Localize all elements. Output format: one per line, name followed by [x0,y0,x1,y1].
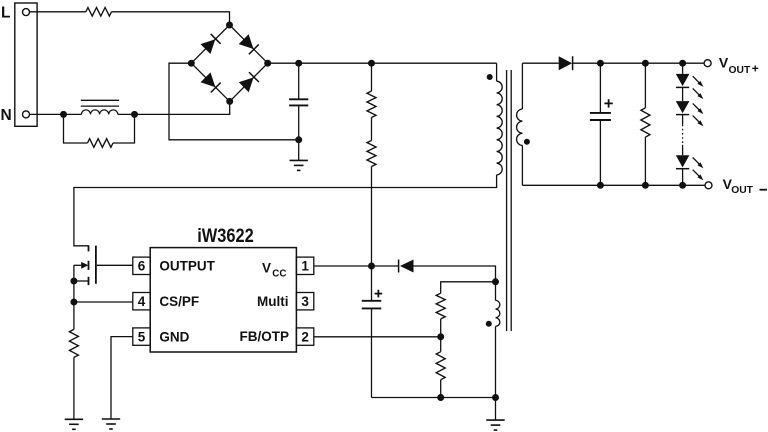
terminal N pin [23,111,30,118]
wire R1 to bridge top [112,12,230,25]
input terminal block J1 [15,3,37,126]
wire parallel branch left [64,114,88,143]
wire bridge edge T-R [230,25,268,63]
wire primary top lead [496,63,498,81]
resistor R2 [88,139,114,148]
wire bridge edge B-R [230,63,268,101]
node C3 top [597,60,604,67]
wire C1 node to R3 node [299,62,372,64]
wire secondary top lead [521,63,523,109]
ground input [290,159,308,161]
ground sense [65,418,83,420]
svg-text:1: 1 [301,259,309,274]
resistor R6 [436,293,445,319]
transformer T1 primary phase dot [487,74,493,80]
wire pin2 to FB node [314,336,441,338]
svg-text:OUT: OUT [729,65,751,76]
diode D3 [201,72,216,87]
node FB [437,333,444,340]
node A [60,111,67,118]
capacitor C2 plus [375,293,383,295]
node R8 top [642,60,649,67]
wire C2 to bottom rail [371,308,373,397]
svg-text:3: 3 [301,294,309,309]
inductor L1 core lines [81,99,119,101]
diode D6 [400,260,414,273]
capacitor C3 plus [604,102,612,104]
resistor R7 [436,352,445,380]
svg-text:OUTPUT: OUTPUT [159,259,215,274]
transistor Q1 body arrow [74,264,87,266]
wire primary bottom to drain [74,175,497,246]
wire L1 to node B [118,113,135,115]
wire D6 to aux [414,266,496,282]
pin box 4 [133,293,150,310]
resistor R4 [367,141,376,167]
svg-text:OUT: OUT [731,185,753,196]
capacitor C2 [362,300,382,302]
svg-text:CC: CC [272,268,286,279]
pin box 3 [296,293,313,310]
node R8 bottom [642,182,649,189]
wire R8 lower lead [644,137,646,185]
node CS [70,299,77,306]
wire bridge edge L-T [191,25,229,63]
wire N to node A [30,113,64,115]
wire C1 to ground [298,140,300,161]
led LED1 [676,74,690,86]
wire aux gnd [495,398,497,421]
ground aux [486,419,504,421]
wire R7 to bottom rail [440,380,442,398]
wire aux top lead [495,282,497,301]
wire parallel branch right [113,114,135,143]
ground pin5 [102,418,120,420]
transistor Q1 channel segments [88,245,90,251]
svg-text:6: 6 [138,259,146,274]
svg-text:L: L [1,5,10,22]
wire bridge right to C1 node [268,62,299,64]
wire C1 upper lead [298,63,300,99]
transformer T1 core [506,70,508,331]
wire R3-R4 [371,118,373,141]
wire bottom rail [372,397,496,399]
wire R3 top lead [371,63,373,91]
wire LED2 to dashes [682,115,684,125]
wire pin4 to CS node [74,301,133,303]
capacitor C3 [590,112,611,114]
wire Vcc node to D6 [372,265,399,267]
wire C1 lower lead [298,105,300,139]
resistor R1 [86,8,112,17]
node bridge right [264,60,271,67]
resistor R3 [367,91,376,118]
wire LED string top lead [682,63,684,74]
node B [131,111,138,118]
node Vcc [368,263,375,270]
wire pin5 to ground [111,337,133,419]
wire aux bottom lead [495,326,497,397]
pin box 5 [133,328,150,345]
led LED3 [676,155,690,167]
node bridge top [226,22,233,29]
diode D4 [239,77,254,92]
transistor Q1 source lead [74,280,89,282]
wire FB to R7 [440,337,442,352]
wire C3 lower lead [599,120,601,185]
svg-text:V: V [719,54,729,70]
wire bridge edge L-B [191,63,229,101]
terminal Vout- [705,182,712,189]
inductor L1 [81,110,117,115]
transformer T1 secondary phase dot [524,139,530,145]
transformer T1 aux phase dot [486,321,492,327]
wire R6 to FB node [440,319,442,337]
node LED top [679,60,686,67]
wire source to CS node [73,281,75,302]
svg-text:iW3622: iW3622 [197,226,254,247]
diode D1 [201,39,216,54]
diode D5 [559,56,572,70]
wire R4 to Vcc node [371,167,373,267]
wire aux to divider [441,282,496,293]
node R3 top [368,60,375,67]
resistor R5 [69,329,78,357]
wire dashes to LED3 [682,145,684,155]
wire R5 to ground [73,357,75,419]
wire R8 node to LED node [645,62,682,64]
capacitor C1 [289,98,308,100]
svg-text:V: V [262,260,271,275]
svg-text:Multi: Multi [257,294,289,309]
wire L to R1 [30,11,86,13]
capacitor C3 upper lead [599,63,601,113]
pin box 1 [296,257,313,274]
wire CS to R5 [73,302,75,329]
svg-text:4: 4 [138,294,146,309]
led LED2 [676,101,690,113]
node aux bottom [492,394,499,401]
resistor R8 [641,108,650,137]
node LED bottom [679,182,686,189]
wire D5 to C3 node [573,62,601,64]
node bridge bottom [226,98,233,105]
op-amp U1 iW3622 body [150,248,296,352]
svg-text:2: 2 [301,329,309,344]
wire bridge left to gnd rail [169,63,299,140]
node divider bottom [437,394,444,401]
capacitor C2 upper lead [371,266,373,301]
svg-text:CS/PF: CS/PF [159,294,199,309]
transistor Q1 gate bar [95,246,97,284]
node C1 top [295,60,302,67]
transformer T1 aux winding [496,300,500,326]
svg-text:5: 5 [138,329,146,344]
wire gate to pin6 [97,264,133,266]
svg-text:N: N [1,107,12,124]
transformer T1 secondary winding [517,109,523,145]
wire rail to transformer [372,62,497,64]
node aux top [492,278,499,285]
node Q1 source [70,278,77,285]
transformer T1 primary winding [497,81,503,175]
wire body to source [73,265,75,281]
node C3 bottom [597,182,604,189]
svg-text:FB/OTP: FB/OTP [240,329,290,344]
wire secondary to D5 [522,62,558,64]
diode D2 [239,34,254,49]
wire C3 node to R8 node [600,62,645,64]
svg-text:+: + [752,62,759,76]
wire secondary bottom lead [521,145,523,185]
wire LED1-LED2 [682,87,684,101]
pin box 6 [133,257,150,274]
pin box 2 [296,328,313,345]
wire R8 upper lead [644,63,646,108]
node bridge left [188,60,195,67]
wire LED3 to bottom rail [682,169,684,186]
wire node B to bridge bottom [135,101,230,114]
svg-text:GND: GND [159,330,189,345]
terminal L pin [23,9,30,16]
terminal Vout+ [704,60,711,67]
wire LED node to Vout+ [683,62,705,64]
node C1 bottom [295,136,302,143]
wire secondary return rail [522,184,705,186]
wire node A to L1 [64,113,82,115]
wire pin1 to Vcc node [314,265,372,267]
wire dashed continuation [682,125,684,145]
